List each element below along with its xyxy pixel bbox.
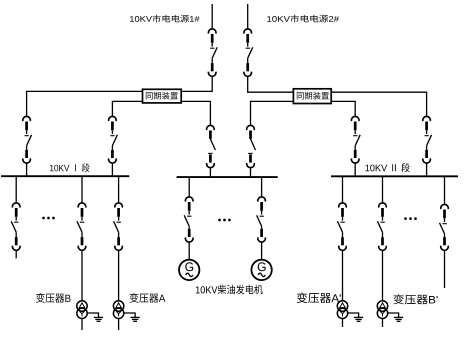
busbar: generator bus [177,176,278,178]
breaker QF5 (bus I tie) [109,116,117,121]
wire: feeder to transformer A [118,176,120,203]
synchronizing device box U1 (同期装置 left) [143,89,182,103]
label: 10KV Ⅰ 段 (bus I) [50,163,90,172]
wire: QF12 to generator G1 [188,242,190,260]
wire: feeder to transformer B [81,176,83,203]
generator G1 (10KV diesel generator) [179,260,199,280]
wire: generator 2 drop [261,177,263,197]
breaker QF1 (10KV source 1# incoming breaker) [208,29,216,34]
wire: feeder to transformer B-prime [382,176,384,203]
label: 10KV市电电源2# [267,15,339,23]
wire: bus II tie riser [354,163,356,176]
label: 10KV柴油发电机 [196,285,263,294]
wire: QF4 to bus II [426,163,428,176]
breaker QF11 (transformer A feeder) [115,203,123,208]
breaker QF12 (generator 1) [185,197,193,202]
breaker QF7 (bus II tie) [351,116,359,121]
wire: QF6 to generator bus [209,168,211,177]
wire: spare feeder stub right [444,250,446,288]
wire: QF14 to transformer A' [342,250,344,301]
wire: tie bus II to generator bus (node D) [251,101,356,125]
wire: tie bus I to generator bus (node C) [112,101,210,125]
label: 变压器B [36,293,71,303]
transformer T-A (变压器A) [113,301,123,311]
wire: transformer A' tail [342,319,344,328]
wire: QF2 to bus I [26,163,28,176]
label: 变压器B' [393,294,437,304]
ground: transformer B' neutral [388,313,399,317]
wire: source1 to bus I horizontal (node A) [27,76,213,116]
label: 变压器A' [297,292,341,303]
wire: transformer B' tail [382,319,384,328]
busbar: 10KV section I [1,175,129,177]
label: 10KV市电电源1# [130,15,200,23]
wire: bus I tie riser [111,163,113,176]
wire: bus I spare feeder drop [15,176,17,203]
busbar: 10KV section II [331,175,458,177]
transformer T-A' (变压器A') [337,301,347,311]
wire: QF13 to generator G2 [261,242,263,260]
ellipsis dots bus I feeders [42,217,45,220]
breaker QF15 (transformer B-prime feeder) [379,203,387,208]
breaker QF9 (bus I spare feeder) [12,203,20,208]
generator G2 (10KV diesel generator) [251,260,271,280]
ellipsis dots generator bus [218,219,221,222]
wire: QF10 to transformer B [81,250,83,301]
label: 10KV Ⅱ 段 (bus II) [365,163,409,172]
breaker QF6 (generator bus tie left) [207,125,215,130]
wire: incoming source 1# drop [211,4,213,29]
ground: transformer B neutral [87,313,98,317]
wire: bus II spare feeder drop [444,176,446,204]
label: 变压器A [130,293,166,303]
wire: transformer B tail [81,319,83,331]
transformer T-B (变压器B) [77,301,87,311]
breaker QF13 (generator 2) [258,197,266,202]
wire: generator 1 drop [188,177,190,197]
breaker QF10 (transformer B feeder) [78,203,86,208]
wire: source2 to bus II horizontal (node B) [248,76,427,116]
transformer T-B' (变压器B') [377,301,387,311]
wire: QF15 to transformer B' [382,250,384,301]
synchronizing device box U2 (同期装置 right) [293,89,331,104]
breaker QF3 (10KV source 2# incoming breaker) [244,29,252,34]
ground: transformer A' neutral [348,313,359,317]
ground: transformer A neutral [124,313,135,317]
wire: feeder to transformer A-prime [342,176,344,203]
breaker QF14 (transformer A-prime feeder) [339,203,347,208]
breaker QF16 (bus II spare feeder) [441,204,449,209]
wire: transformer A tail [118,319,120,331]
wire: QF11 to transformer A [118,250,120,301]
breaker QF4 (bus II incoming) [423,116,431,121]
wire: QF8 to generator bus [250,168,252,177]
breaker QF2 (bus I incoming) [23,116,31,121]
wire: incoming source 2# drop [247,4,249,29]
wire: spare feeder stub [15,250,17,258]
breaker QF8 (generator bus tie right) [247,125,255,130]
ellipsis dots bus II feeders [404,217,407,220]
